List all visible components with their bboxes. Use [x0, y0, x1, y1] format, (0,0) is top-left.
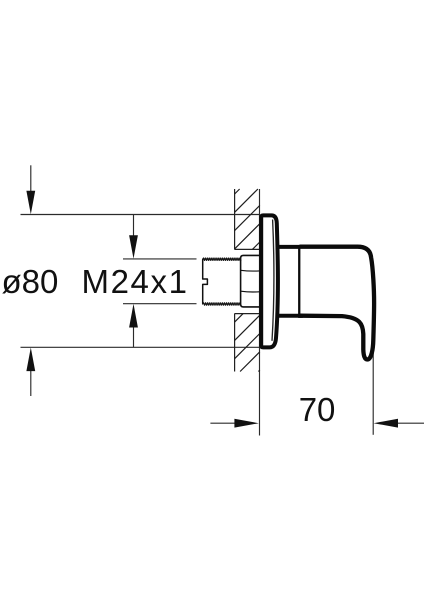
svg-text:M24x1: M24x1 [82, 263, 189, 300]
svg-text:70: 70 [299, 391, 336, 428]
svg-text:ø80: ø80 [2, 263, 59, 300]
